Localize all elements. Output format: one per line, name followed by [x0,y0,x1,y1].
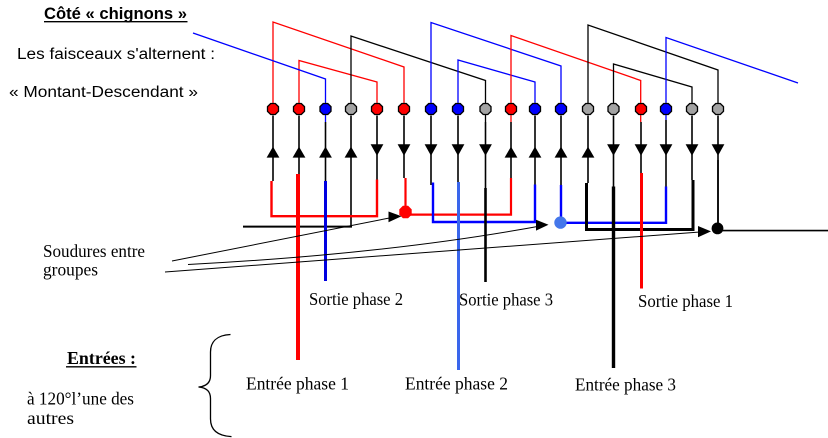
node dot 8 (B) [453,104,464,115]
node dot 15 (R) [636,104,647,115]
annotation line to black weld [165,226,711,272]
arrow on wire 2 (up) [293,147,306,158]
node dot 1 (R) [268,104,279,115]
arrow on wire 18 (down) [712,144,725,156]
arrow on wire 11 (up) [529,147,542,158]
wire 7 vertical [430,116,432,186]
wire 8 vertical [457,116,459,183]
node dot 7 (B) [426,104,437,115]
wire 10 vertical [510,122,512,178]
arrow on wire 1 (up) [267,147,280,158]
wire chignon connector C2 299to377 [299,61,377,106]
wire chignon wrap-around into wire 3 [193,33,326,122]
black bus wrap segment (left to wire 4) [243,226,352,228]
node dot 18 (G) [713,104,724,115]
label Soudures entre groupes [43,241,145,280]
wire chignon connector C3 351to485 [351,36,486,122]
wire 4 vertical [350,116,352,227]
wire 9 vertical [485,122,487,188]
wire chignon connector C1 273to404 [273,22,404,106]
wire 13 vertical [587,116,589,184]
node dot 6 (R) [399,104,410,115]
wire 3 vertical [325,122,327,181]
node dot 4 (G) [346,104,357,115]
entree phase 3 lead (black) [612,187,615,369]
entree phase 1 lead (thick red) [296,174,300,360]
svg-text:à 120°l’une des: à 120°l’une des [27,389,134,409]
svg-text:Entrée phase 1: Entrée phase 1 [246,374,349,394]
junction dot phase3 (black weld) [712,223,724,235]
title Côté « chignons » [44,5,188,23]
blue bus group2 (junction to wire 16) [561,185,666,223]
node dot 16 (B) [661,104,672,115]
node dot 3 (B) [320,104,331,115]
node dot 2 (R) [294,104,305,115]
black junction wire 18 drop [717,160,719,228]
annotation line to red weld [172,212,402,262]
svg-text:Côté « chignons »: Côté « chignons » [44,5,187,23]
brace grouping entrees [199,335,232,437]
arrow on wire 8 (down) [452,144,465,156]
wire chignon connector C5 458to535 [458,60,535,106]
red bus group1 (wires 1-5) [272,180,378,217]
svg-text:« Montant-Descendant »: « Montant-Descendant » [9,84,198,101]
black bus group (wires 13-17) [587,180,694,230]
blue bus group1 (wires 7-11) [433,183,535,223]
node dot 5 (R) [372,104,383,115]
junction dot phase1 (red weld) [399,206,411,218]
node dot 13 (G) [583,104,594,115]
arrow on wire 17 (down) [686,144,699,156]
black bus wrap segment (junction to right edge) [718,230,828,232]
svg-text:Les faisceaux s'alternent :: Les faisceaux s'alternent : [17,46,215,63]
node dot 12 (B) [556,104,567,115]
wire chignon connector C7 588to718 [588,25,718,106]
arrow on wire 9 (down) [479,144,492,156]
label à 120° l'une des autres [27,389,134,429]
sortie phase 3 lead (black) [484,188,487,282]
svg-text:Entrées :: Entrées : [67,348,136,368]
svg-text:Sortie phase 3: Sortie phase 3 [459,290,553,310]
arrow on wire 3 (up) [319,147,332,158]
node dot 9 (G) [480,104,491,115]
svg-text:Entrée phase 3: Entrée phase 3 [575,375,676,395]
node dot 11 (B) [530,104,541,115]
svg-text:Soudures entre: Soudures entre [43,241,145,261]
svg-text:Entrée phase 2: Entrée phase 2 [405,374,508,394]
arrow on wire 15 (down) [635,144,648,156]
arrow on wire 7 (down) [425,144,438,156]
arrow on wire 16 (down) [660,144,673,156]
wire chignon connector C6 511to640 [511,36,641,123]
arrow on wire 10 (up) [505,147,518,158]
wire 11 vertical [534,116,536,186]
wire 12 vertical [560,116,562,186]
svg-text:Sortie phase 1: Sortie phase 1 [638,291,733,311]
arrow on wire 5 (down) [371,144,384,156]
sortie phase 2 lead (dark blue) [324,181,327,281]
wire 17 vertical [691,116,693,181]
node dot 17 (G) [687,104,698,115]
node dot 10 (R) [506,104,517,115]
wire chignon connector C8 613to692 [614,64,693,106]
wire 16 vertical [665,120,667,187]
arrow on wire 4 (up) [345,147,358,158]
wire chignon connector C4 431to561 [431,23,561,106]
svg-text:autres: autres [27,408,74,428]
arrow on wire 13 (up) [582,147,595,158]
label Entrées : (underlined) [66,348,137,368]
wire chignon wrap-around out of wire 16 [666,38,798,121]
wire 15 vertical [640,122,642,173]
wire 2 vertical [298,116,300,176]
wire 6 vertical [403,116,405,179]
node dot 14 (G) [608,104,619,115]
red bus group2 (junction to wire 10) [406,178,512,215]
wire 14 vertical [613,116,615,187]
svg-text:Sortie phase 2: Sortie phase 2 [309,289,403,309]
annotation line to blue weld [188,220,549,265]
svg-text:groupes: groupes [43,260,98,280]
junction dot phase2 (blue weld) [554,216,566,228]
wire 1 vertical [272,116,274,182]
wire 5 vertical [376,116,378,180]
arrow on wire 6 (down) [398,144,411,156]
entree phase 2 lead (royal blue) [457,182,460,370]
wire 18 vertical [717,116,719,224]
arrow on wire 14 (down) [607,144,620,156]
arrow on wire 12 (up) [555,147,568,158]
sortie phase 1 lead (red) [640,173,643,289]
